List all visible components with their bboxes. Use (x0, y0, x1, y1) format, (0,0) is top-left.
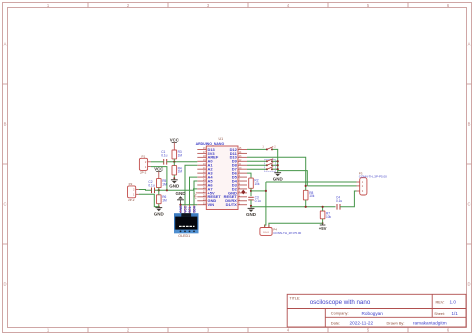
svg-text:P1: P1 (141, 155, 145, 159)
capacitor C2 0.1u (148, 180, 154, 193)
svg-text:OLED1: OLED1 (178, 234, 190, 238)
svg-text:1M: 1M (178, 170, 183, 174)
svg-text:Company:: Company: (331, 311, 349, 316)
wire D12 to switch S1 (247, 148, 266, 150)
junction R2/C3 node (250, 190, 252, 192)
OLED display module OLED1 (174, 205, 199, 238)
svg-text:GND: GND (273, 177, 284, 182)
svg-text:CONN-TH_2P-P5.00: CONN-TH_2P-P5.00 (273, 231, 301, 235)
wire D6 to R2 (247, 173, 251, 178)
junction R7 top (322, 206, 324, 208)
connector P1 (2P-2) (139, 155, 150, 175)
junctions on gnd rail (277, 160, 279, 162)
wire R5 to ch2 node (158, 188, 160, 191)
wire R7 to +5V node (322, 219, 324, 223)
title block (287, 294, 466, 327)
connector P2 (2P-2) (128, 182, 139, 202)
svg-text:GND: GND (246, 212, 257, 217)
svg-text:Sheet:: Sheet: (434, 312, 445, 316)
wire ch2 node to R6 (158, 190, 160, 195)
svg-text:1M: 1M (162, 182, 167, 186)
DIP switch bank (3x) (264, 159, 275, 172)
svg-text:2P-2: 2P-2 (140, 170, 147, 174)
wire R8 bottom to rail (305, 200, 307, 207)
svg-text:A: A (4, 42, 7, 47)
svg-text:Drawn By:: Drawn By: (387, 320, 405, 325)
svg-text:VCC: VCC (154, 166, 163, 171)
wire A1 to OLED pin2 (185, 165, 197, 205)
wire D8 to switch bank (247, 164, 266, 166)
ground (switch bank) (273, 173, 284, 182)
pushbutton S1 (pins 1,2) (262, 145, 276, 151)
ground (C3) (246, 207, 257, 217)
resistor R7 10k (320, 211, 331, 219)
power flag VCC (channel 1) (170, 137, 179, 150)
svg-text:VCC: VCC (183, 205, 187, 213)
svg-text:GND: GND (169, 184, 180, 189)
svg-text:0.1u: 0.1u (161, 154, 167, 158)
wire R4 to GND (173, 175, 175, 180)
svg-text:C: C (3, 202, 6, 207)
svg-text:A: A (468, 42, 471, 47)
wire rail to R8 column (278, 171, 308, 186)
wire P2.2 to C2 (139, 189, 152, 192)
svg-text:10k: 10k (254, 182, 260, 186)
svg-text:VCC: VCC (170, 137, 179, 142)
wire R3 to node A0 (173, 159, 175, 162)
svg-text:GND: GND (176, 191, 187, 196)
wire P1.2 to C1 (151, 161, 164, 163)
svg-text:U1: U1 (219, 137, 224, 141)
wire C1 to A0 pin (167, 161, 198, 163)
junction +5V node (322, 222, 324, 224)
svg-text:D1/TX: D1/TX (226, 202, 238, 207)
svg-text:Robogyan: Robogyan (362, 311, 384, 316)
wire C3 to gnd/rail node (250, 200, 252, 207)
ground (above OLED, flipped) (176, 191, 187, 205)
resistor R5 1M (157, 179, 167, 188)
resistor R8 10k (303, 190, 314, 200)
wire P1.1 down to ch2 node (151, 167, 167, 191)
wire VIN pin to OLED GND node (181, 204, 198, 206)
capacitor C1 0.1u (161, 150, 167, 164)
svg-text:10k: 10k (326, 215, 332, 219)
junction OLED gnd (179, 204, 181, 206)
svg-text:CONN-TH_3P-P5.00: CONN-TH_3P-P5.00 (359, 175, 387, 179)
wire P3 pin1 long (266, 181, 357, 183)
svg-text:10k: 10k (309, 194, 315, 198)
wire C2 to A7 pin (155, 189, 198, 190)
svg-text:0.1u: 0.1u (255, 199, 261, 203)
wire node to R4 (173, 162, 175, 166)
junction C3 bottom (250, 205, 252, 207)
svg-text:D: D (467, 282, 470, 287)
wire bottom rail (251, 206, 336, 208)
svg-text:1.0: 1.0 (450, 300, 457, 305)
capacitor C4 0.1u (336, 196, 342, 210)
svg-text:REV:: REV: (436, 299, 445, 304)
wire S1 to gnd rail (273, 149, 278, 172)
connector P3 CONN-TH_3P-P5.00 (357, 171, 388, 195)
wire R6 to GND (158, 204, 160, 208)
svg-text:2P-2: 2P-2 (128, 198, 135, 202)
wire A5 to OLED pin4 (194, 181, 197, 205)
svg-text:SDA: SDA (192, 205, 196, 213)
svg-text:+5V: +5V (194, 193, 198, 200)
wire D9 to switch bank (247, 160, 266, 162)
svg-text:1M: 1M (162, 199, 167, 203)
svg-text:B: B (4, 122, 7, 127)
resistor R4 1M (172, 166, 182, 175)
wire node to P4 column (251, 190, 266, 192)
resistor R3 1M (172, 150, 182, 159)
svg-text:ARDUINO_NANO: ARDUINO_NANO (196, 142, 225, 146)
svg-text:VIN: VIN (208, 202, 215, 207)
svg-text:osciloscope with nano: osciloscope with nano (310, 299, 371, 306)
wire D10 to R8 top (247, 157, 306, 186)
wire rail to R7 (322, 207, 324, 211)
svg-text:D: D (3, 282, 6, 287)
junction R6 bottom (158, 206, 160, 208)
svg-text:1M: 1M (178, 154, 183, 158)
svg-text:B: B (468, 122, 471, 127)
wire P4.2 to +5V (269, 223, 323, 227)
svg-text:2022-11-22: 2022-11-22 (350, 321, 374, 326)
power flag +5V (rotated, at +5V pin) (194, 193, 198, 200)
junction P1.1 wire on ch2 node (166, 189, 168, 191)
svg-text:C: C (467, 202, 470, 207)
junction R4 bottom (173, 177, 175, 179)
svg-text:GND: GND (179, 205, 183, 213)
power flag VCC (channel 2) (154, 166, 163, 178)
junction node ch2 (158, 189, 160, 191)
svg-text:ramakantadgitm: ramakantadgitm (413, 321, 447, 326)
ground (channel 2) (154, 208, 165, 217)
ground flag (diamond at U1 GND pin) (241, 190, 245, 195)
wire R8 top stub (305, 186, 307, 190)
svg-text:1/1: 1/1 (452, 311, 459, 316)
wire C4 to P3 pin3 (340, 191, 357, 207)
wire node column to P4.1 (265, 182, 266, 228)
wire R2 to C3 (250, 188, 252, 196)
wire P2.1 to gnd node (139, 194, 159, 206)
wire bank to gnd rail (273, 160, 278, 162)
svg-text:Date:: Date: (331, 320, 340, 325)
svg-text:P2: P2 (129, 182, 133, 186)
junction R8 top (305, 185, 307, 187)
svg-text:P4-01: P4-01 (263, 232, 270, 234)
wire D7 to switch bank (247, 168, 266, 170)
connector P4 CONN-TH_2P-P5.00 (260, 225, 302, 236)
svg-text:0.1u: 0.1u (148, 183, 154, 187)
junction node ch1 (173, 161, 175, 163)
capacitor C3 0.1u (248, 195, 261, 202)
svg-text:+5V: +5V (319, 226, 327, 231)
junction R8 bottom (305, 206, 307, 208)
MCU U1 ARDUINO_NANO (196, 137, 247, 210)
svg-text:0.1u: 0.1u (336, 199, 342, 203)
resistor R2 10k (249, 178, 260, 188)
resistor R6 1M (157, 195, 167, 204)
wire A4 to OLED pin3 (190, 177, 198, 205)
ground (under R4) (169, 180, 180, 189)
junction P4 column (265, 190, 267, 192)
svg-text:TITLE:: TITLE: (290, 296, 301, 300)
svg-text:SCL: SCL (188, 206, 192, 213)
wire R8 top to P3 pin2 (307, 185, 356, 187)
svg-text:GND: GND (154, 211, 165, 216)
power flag +5V (319, 223, 327, 231)
